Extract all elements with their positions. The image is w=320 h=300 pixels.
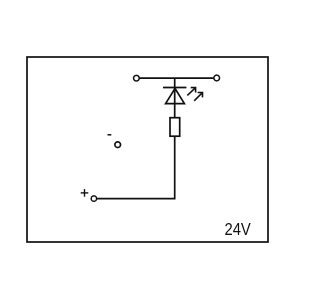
terminal circle (top left) <box>134 75 140 81</box>
terminal circle (- input) <box>115 142 121 148</box>
label + <box>81 189 89 197</box>
LED D1: triangle (anode, pointing up) <box>166 88 185 103</box>
svg-text:24V: 24V <box>225 220 251 240</box>
terminal circle (+ input, bottom left) <box>91 196 96 201</box>
resistor R1 <box>170 118 180 137</box>
LED D1: emission arrow 1 <box>187 88 195 96</box>
wire: vertical through LED down to bottom, then left to + terminal <box>97 78 175 199</box>
LED D1: cathode bar <box>163 87 186 89</box>
LED D1: emission arrow 2 <box>194 93 202 101</box>
wire: top horizontal bus between terminals <box>139 77 214 79</box>
label - <box>108 134 112 136</box>
symbol boundary frame <box>27 57 268 242</box>
terminal circle (top right) <box>214 75 220 81</box>
